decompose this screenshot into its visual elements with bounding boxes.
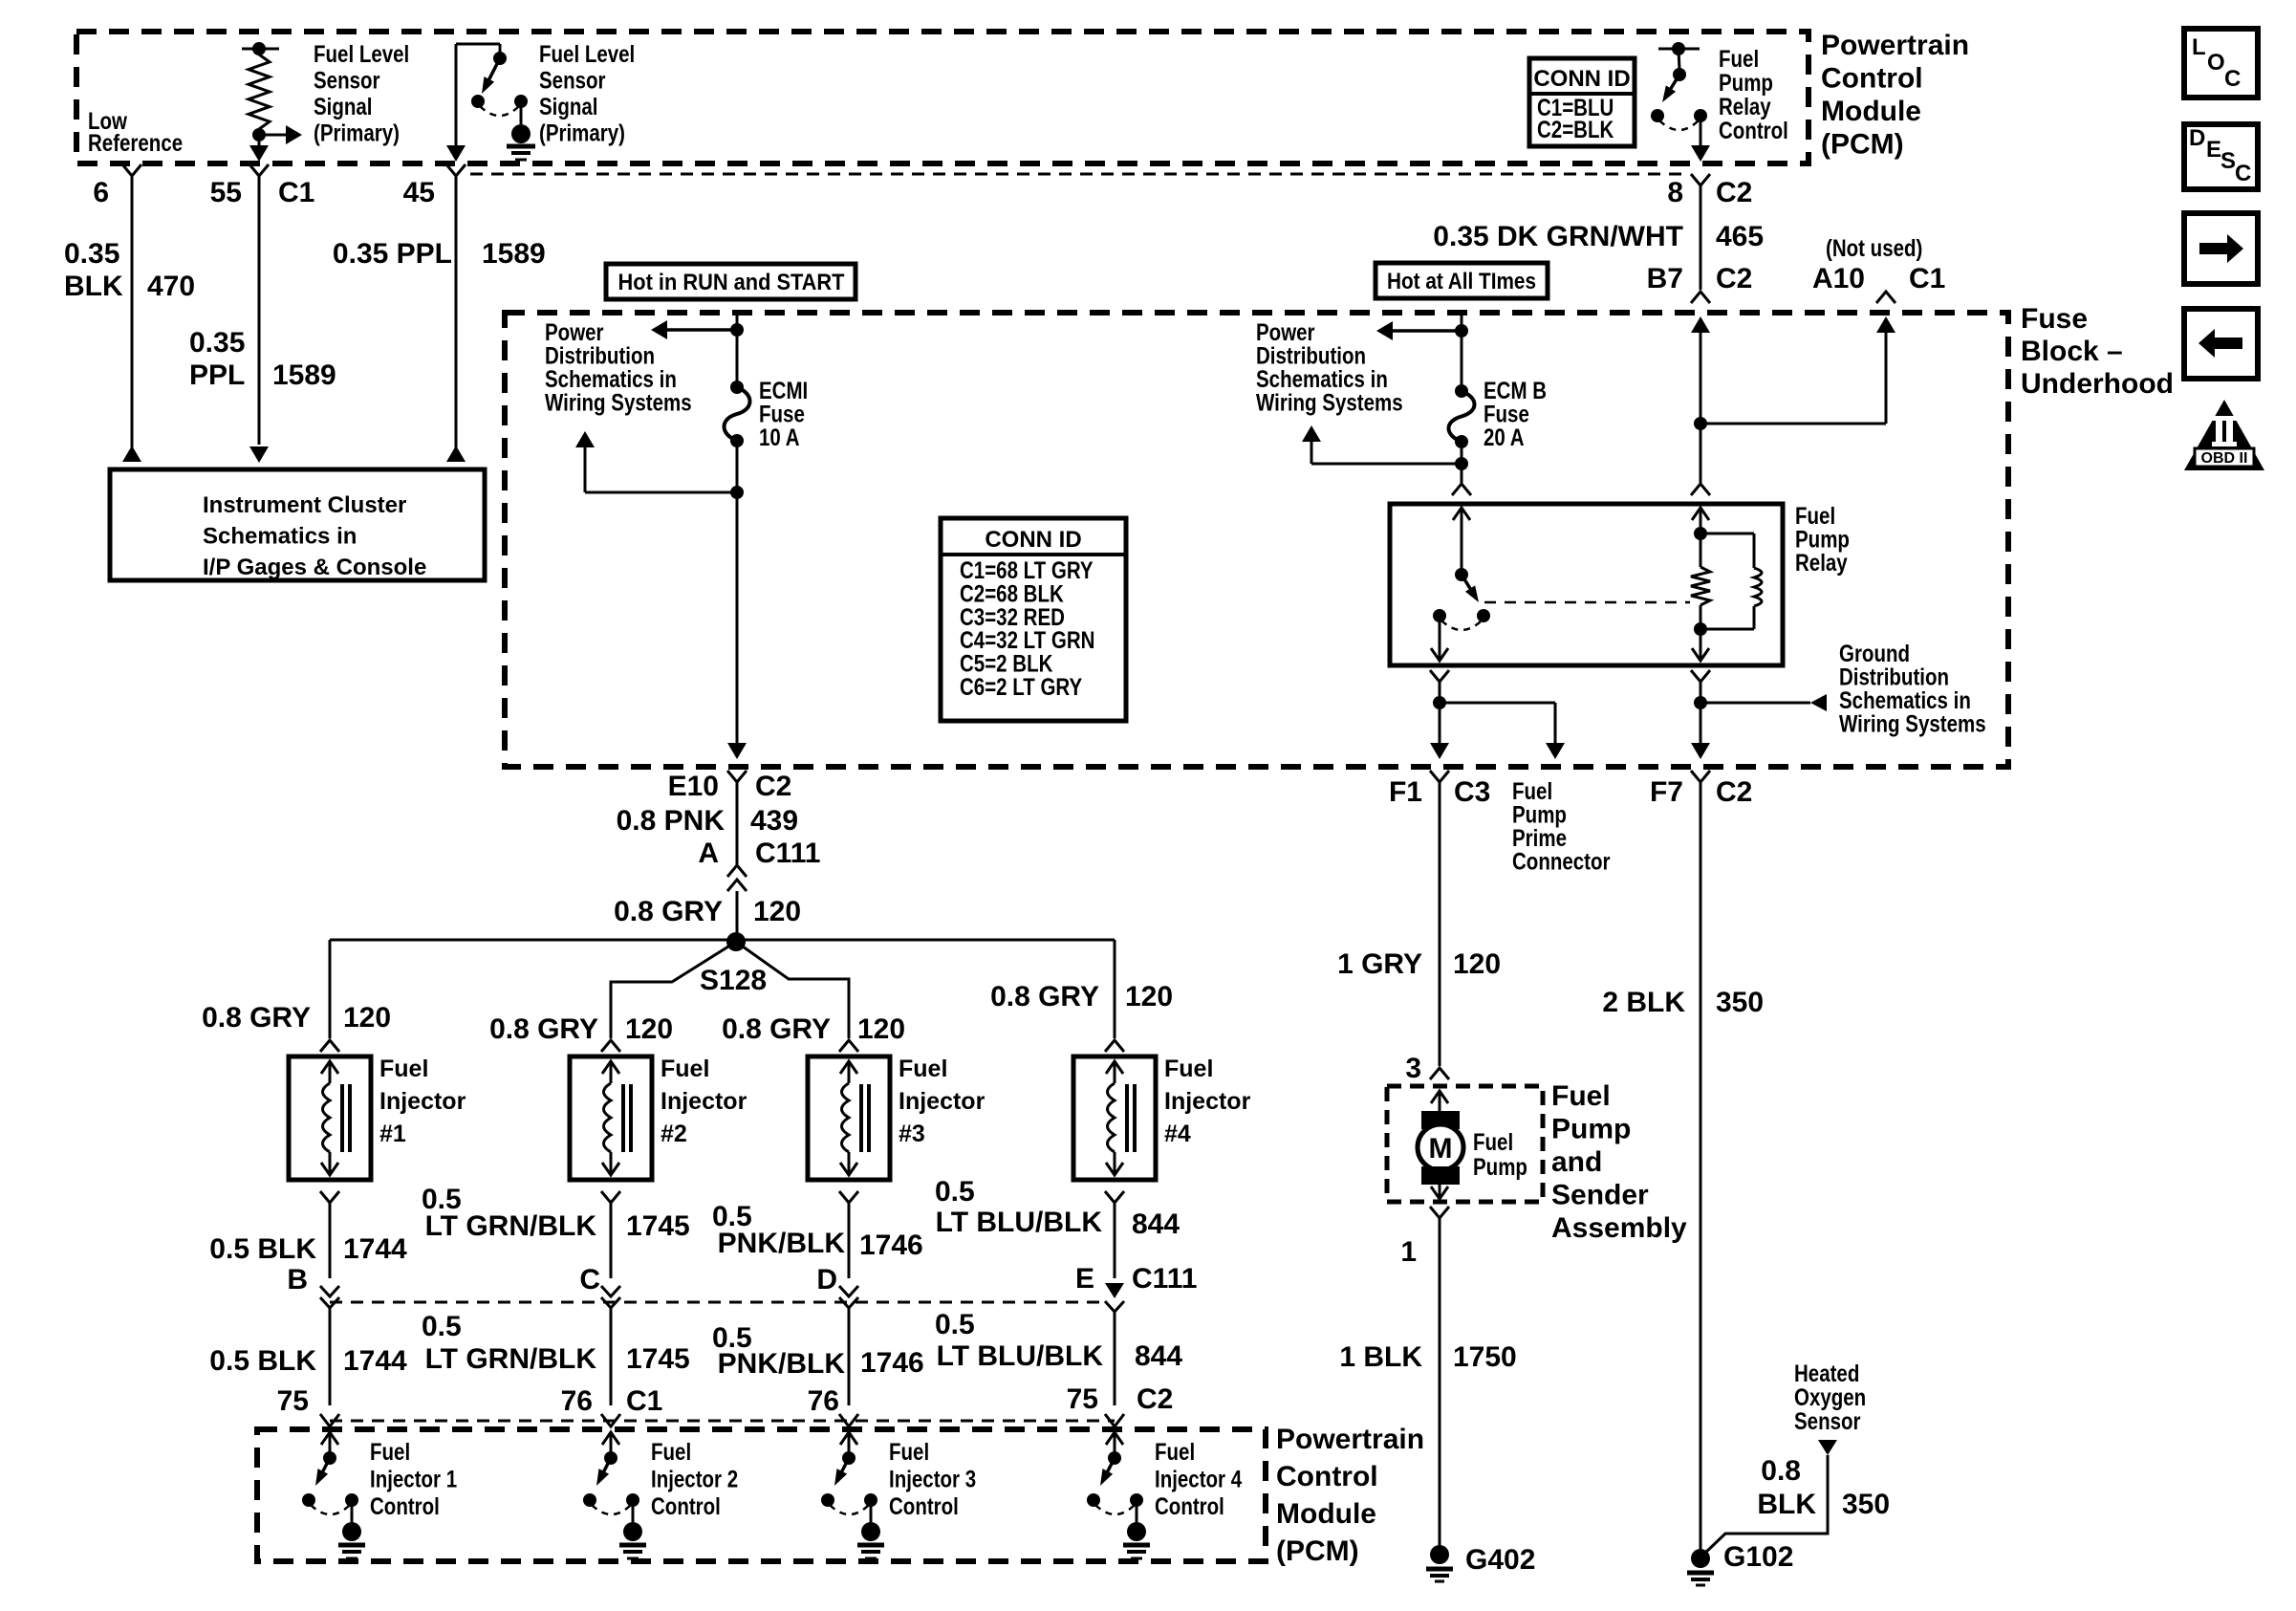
svg-text:#3: #3	[899, 1121, 925, 1147]
svg-text:Fuel: Fuel	[1473, 1128, 1513, 1155]
svg-text:Control: Control	[1276, 1461, 1378, 1492]
connector C111 double chevron col 3	[839, 1286, 858, 1296]
svg-text:0.8 GRY: 0.8 GRY	[614, 896, 723, 927]
svg-text:I/P Gages & Console: I/P Gages & Console	[203, 555, 426, 580]
icon arrow left box	[2184, 309, 2258, 379]
svg-text:#4: #4	[1164, 1121, 1191, 1147]
wire B7 465 down to relay coil	[1691, 316, 1710, 333]
PCM connector chevron col 4	[1105, 1414, 1124, 1426]
svg-text:Control: Control	[651, 1492, 721, 1519]
svg-text:CONN ID: CONN ID	[985, 527, 1081, 553]
svg-text:120: 120	[625, 1013, 673, 1045]
svg-text:0.5 BLK: 0.5 BLK	[209, 1233, 316, 1265]
fuel injector #2 box	[601, 1040, 620, 1052]
fuel injector 4 control driver switch	[1114, 1432, 1116, 1453]
svg-text:Control: Control	[1719, 117, 1788, 143]
svg-text:6: 6	[93, 177, 109, 208]
svg-text:LT GRN/BLK: LT GRN/BLK	[425, 1210, 597, 1242]
svg-text:0.5: 0.5	[935, 1176, 975, 1208]
PCM connector C1 thin dashed line	[470, 173, 1687, 176]
svg-text:BLK: BLK	[1757, 1489, 1816, 1520]
ground at sender	[520, 107, 523, 124]
label ECMI Fuse 10 A	[759, 377, 808, 403]
wire ECM B feed into fuse block	[1461, 313, 1463, 391]
svg-text:1744: 1744	[343, 1233, 407, 1265]
relay coil output wire	[1700, 629, 1702, 661]
fuel pump prime connector branch	[1440, 702, 1555, 705]
svg-text:0.8 PNK: 0.8 PNK	[617, 805, 726, 837]
svg-text:D: D	[816, 1264, 837, 1295]
svg-text:0.5: 0.5	[422, 1311, 462, 1342]
svg-text:LT BLU/BLK: LT BLU/BLK	[936, 1207, 1103, 1238]
fuel pump motor	[1439, 1091, 1441, 1112]
relay dashed actuation line	[1484, 601, 1690, 604]
relay coil resistor	[1700, 533, 1702, 567]
svg-text:C2: C2	[1716, 177, 1752, 208]
svg-text:1745: 1745	[626, 1343, 690, 1375]
svg-text:Reference: Reference	[88, 129, 183, 156]
connector C111 double chevron col 2	[601, 1286, 620, 1296]
label Heated Oxygen Sensor	[1794, 1360, 1859, 1386]
fuel pump relay control switch (PCM)	[1658, 48, 1700, 51]
svg-text:Relay: Relay	[1795, 549, 1848, 576]
wire 120 GRY to fuel pump	[1430, 771, 1449, 782]
wire 350 BLK to ground G102	[1700, 782, 1702, 1551]
svg-text:C: C	[2235, 161, 2251, 186]
svg-text:(PCM): (PCM)	[1821, 129, 1904, 161]
svg-text:Fuel: Fuel	[1551, 1080, 1611, 1112]
svg-text:76: 76	[561, 1385, 593, 1417]
fuel injector 2 control driver switch	[610, 1432, 613, 1453]
svg-text:Powertrain: Powertrain	[1821, 30, 1969, 61]
wire below ECM B fuse	[1461, 442, 1463, 483]
svg-text:0.8: 0.8	[1761, 1455, 1801, 1487]
fuel injector 3 control ground	[870, 1506, 873, 1524]
icon arrow right box	[2184, 213, 2258, 284]
arrows at fuse block bottom	[727, 743, 747, 759]
svg-text:Module: Module	[1276, 1498, 1376, 1530]
arrow to Fuel Level Sensor Signal label	[259, 134, 289, 137]
svg-text:#1: #1	[379, 1121, 406, 1147]
svg-text:C1: C1	[626, 1385, 662, 1417]
svg-text:Control: Control	[370, 1492, 440, 1519]
icon OBD II triangle	[2184, 400, 2264, 470]
svg-text:45: 45	[403, 177, 435, 208]
icon DESC box	[2184, 124, 2258, 189]
svg-text:1746: 1746	[860, 1347, 924, 1379]
svg-text:#2: #2	[661, 1121, 687, 1147]
svg-text:10 A: 10 A	[759, 424, 800, 450]
icon LOC box	[2184, 29, 2258, 98]
arrow to power distribution (right)	[1392, 329, 1462, 333]
injector #3 output wire	[839, 1191, 858, 1203]
svg-text:Underhood: Underhood	[2021, 368, 2174, 400]
resistor fuel level sensor (primary)	[242, 48, 279, 51]
label Power Distribution Schematics in Wiring Systems (right)	[1256, 318, 1315, 345]
svg-text:8: 8	[1667, 177, 1683, 208]
svg-text:Signal: Signal	[539, 93, 598, 120]
svg-text:0.35: 0.35	[64, 238, 119, 270]
pin labels E10 C2	[727, 771, 747, 782]
svg-text:LT GRN/BLK: LT GRN/BLK	[425, 1343, 597, 1375]
fuel pump relay box	[1390, 504, 1783, 665]
label Fuel Injector 1 Control	[370, 1438, 410, 1465]
svg-text:0.5: 0.5	[935, 1309, 975, 1340]
svg-text:Control: Control	[1155, 1492, 1224, 1519]
svg-text:D: D	[2189, 125, 2205, 151]
svg-text:55: 55	[210, 177, 242, 208]
svg-text:0.8 GRY: 0.8 GRY	[990, 981, 1099, 1012]
svg-text:C6=2 LT GRY: C6=2 LT GRY	[960, 673, 1082, 700]
svg-text:0.8 GRY: 0.8 GRY	[489, 1013, 598, 1045]
svg-text:465: 465	[1716, 221, 1764, 252]
svg-text:Sender: Sender	[1551, 1180, 1649, 1211]
splice S128 bus	[330, 939, 1115, 942]
svg-text:Fuel: Fuel	[651, 1438, 691, 1465]
svg-text:Fuel Level: Fuel Level	[314, 40, 409, 67]
label Fuel Level Sensor Signal (Primary) left	[314, 40, 409, 67]
PCM module dashed box (top)	[76, 32, 1809, 163]
svg-text:C2: C2	[1716, 263, 1752, 294]
svg-text:1589: 1589	[272, 359, 336, 391]
fuel injector #3 coil symbol	[848, 1061, 851, 1083]
svg-text:BLK: BLK	[64, 271, 123, 302]
svg-text:Fuel: Fuel	[1155, 1438, 1195, 1465]
label box Hot at All Times	[1375, 263, 1548, 298]
svg-text:C2=BLK: C2=BLK	[1537, 116, 1614, 142]
label (Not used) A10 C1	[1826, 234, 1922, 261]
svg-text:1 BLK: 1 BLK	[1339, 1341, 1422, 1373]
svg-text:C2: C2	[1716, 776, 1752, 808]
svg-text:1589: 1589	[482, 238, 546, 270]
wire 55 fuel level signal	[249, 164, 269, 176]
wire to injector 4	[1114, 940, 1116, 1038]
svg-text:120: 120	[753, 896, 801, 927]
PCM module dashed box (bottom)	[257, 1429, 1266, 1561]
svg-text:CONN ID: CONN ID	[1533, 66, 1630, 92]
svg-text:(Primary): (Primary)	[314, 120, 400, 146]
svg-text:Fuel: Fuel	[370, 1438, 410, 1465]
svg-text:C1: C1	[278, 177, 314, 208]
label box Hot in RUN and START	[606, 264, 856, 299]
svg-text:C2: C2	[755, 771, 791, 802]
svg-text:Injector 1: Injector 1	[370, 1466, 457, 1492]
injector #2 output wire	[601, 1191, 620, 1203]
svg-text:Fuel Level: Fuel Level	[539, 40, 635, 67]
label Power Distribution Schematics in Wiring Systems (left)	[545, 318, 604, 345]
svg-text:Instrument Cluster: Instrument Cluster	[203, 492, 406, 518]
svg-text:(Not used): (Not used)	[1826, 234, 1922, 261]
injector #1 output wire	[320, 1191, 339, 1203]
svg-text:Fuse: Fuse	[2021, 303, 2088, 335]
svg-text:B: B	[287, 1264, 308, 1295]
label Fuel Injector 2 Control	[651, 1438, 691, 1465]
relay switch output wire	[1439, 621, 1441, 661]
svg-text:Injector: Injector	[379, 1088, 466, 1115]
svg-text:PNK/BLK: PNK/BLK	[718, 1348, 846, 1380]
svg-text:3: 3	[1405, 1053, 1421, 1084]
svg-text:C111: C111	[1132, 1263, 1197, 1295]
svg-text:Signal: Signal	[314, 93, 373, 120]
fuel injector 1 control driver switch	[329, 1432, 332, 1453]
svg-text:Wiring Systems: Wiring Systems	[545, 389, 692, 416]
wire 45 fuel level signal secondary	[446, 164, 466, 176]
svg-text:OBD II: OBD II	[2201, 450, 2248, 467]
svg-text:PNK/BLK: PNK/BLK	[718, 1228, 846, 1259]
injector #4 output wire	[1105, 1191, 1124, 1203]
label Low Reference	[88, 107, 127, 134]
svg-text:844: 844	[1132, 1208, 1180, 1240]
PCM connector chevron col 3	[839, 1414, 858, 1426]
svg-text:1746: 1746	[859, 1230, 923, 1261]
svg-text:G402: G402	[1465, 1544, 1535, 1576]
svg-text:Fuel: Fuel	[889, 1438, 929, 1465]
svg-text:C3: C3	[1454, 776, 1490, 808]
svg-text:S: S	[2220, 148, 2236, 174]
connector C111 double chevron col 1	[320, 1286, 339, 1296]
svg-text:Connector: Connector	[1512, 848, 1611, 875]
heated oxygen sensor wire 350	[1818, 1440, 1837, 1455]
svg-text:120: 120	[857, 1013, 905, 1045]
svg-text:C111: C111	[755, 838, 820, 869]
svg-text:0.5 BLK: 0.5 BLK	[209, 1345, 316, 1377]
PCM connector thin dashed row (bottom)	[330, 1420, 1115, 1423]
svg-text:B7: B7	[1647, 263, 1683, 294]
svg-text:F1: F1	[1389, 776, 1422, 808]
svg-text:Hot in RUN and START: Hot in RUN and START	[618, 270, 845, 295]
svg-text:A10: A10	[1812, 263, 1865, 294]
instrument cluster box	[110, 469, 485, 580]
svg-text:1744: 1744	[343, 1345, 407, 1377]
ground G402	[1430, 1545, 1449, 1564]
svg-text:O: O	[2207, 50, 2225, 76]
svg-text:Module: Module	[1821, 96, 1921, 127]
connector chevron into relay	[1452, 484, 1471, 495]
svg-text:C: C	[2224, 66, 2241, 92]
fuel injector 3 control driver switch	[848, 1432, 851, 1453]
svg-text:Block –: Block –	[2021, 336, 2123, 367]
label Fuel Injector 3 Control	[889, 1438, 929, 1465]
connector C111 pin E arrow	[1105, 1283, 1124, 1298]
svg-text:Pump: Pump	[1551, 1114, 1631, 1145]
fuel injector #2 coil symbol	[610, 1061, 613, 1083]
svg-text:Schematics in: Schematics in	[203, 524, 357, 550]
svg-text:75: 75	[1067, 1383, 1098, 1415]
svg-text:Injector: Injector	[1164, 1088, 1251, 1115]
svg-text:Wiring Systems: Wiring Systems	[1839, 710, 1986, 737]
fuse ECM B 20A	[1455, 384, 1468, 398]
ground G102	[1691, 1549, 1710, 1568]
svg-text:0.8 GRY: 0.8 GRY	[722, 1013, 831, 1045]
svg-text:Injector 4: Injector 4	[1155, 1466, 1242, 1492]
fuel pump and sender assembly dashed box	[1387, 1086, 1543, 1202]
wire below ECMI fuse	[736, 441, 739, 743]
svg-text:Powertrain: Powertrain	[1276, 1424, 1424, 1455]
label Fuel Pump Relay Control	[1719, 45, 1759, 72]
svg-text:Fuel: Fuel	[899, 1056, 947, 1082]
wire A10 chevron	[1876, 292, 1895, 303]
svg-text:0.8 GRY: 0.8 GRY	[202, 1002, 311, 1034]
svg-text:0.35 DK GRN/WHT: 0.35 DK GRN/WHT	[1433, 221, 1683, 252]
svg-text:20 A: 20 A	[1484, 424, 1525, 450]
svg-text:PPL: PPL	[189, 359, 245, 391]
CONN ID box (fuse block)	[941, 518, 1126, 721]
svg-text:M: M	[1429, 1133, 1453, 1165]
svg-text:439: 439	[750, 805, 798, 837]
svg-text:75: 75	[277, 1385, 309, 1417]
S128 branch to injector 3	[736, 942, 849, 1038]
svg-text:(Primary): (Primary)	[539, 120, 625, 146]
svg-text:Control: Control	[889, 1492, 959, 1519]
svg-text:E: E	[1075, 1263, 1094, 1295]
wire A10 branch (not used)	[1700, 423, 1886, 425]
wire to injector 1	[329, 940, 332, 1038]
inline connector C111 pin A (double chevron)	[727, 865, 747, 877]
svg-text:1: 1	[1400, 1236, 1417, 1268]
svg-text:350: 350	[1716, 987, 1764, 1018]
wire sensor signal to connector	[258, 142, 261, 148]
svg-text:C: C	[579, 1264, 600, 1295]
svg-text:Assembly: Assembly	[1551, 1212, 1687, 1244]
fuel injector 2 control ground	[632, 1506, 635, 1524]
svg-text:and: and	[1551, 1146, 1602, 1178]
svg-text:2 BLK: 2 BLK	[1602, 987, 1685, 1018]
fuel level sender switch (wiper)	[456, 43, 500, 46]
fuel injector #1 box	[320, 1040, 339, 1052]
svg-text:E: E	[2206, 137, 2221, 163]
svg-text:1750: 1750	[1453, 1341, 1517, 1373]
svg-text:350: 350	[1842, 1489, 1890, 1520]
label Ground Distribution Schematics in Wiring Systems	[1839, 640, 1910, 666]
svg-text:0.35 PPL: 0.35 PPL	[333, 238, 452, 270]
wire ECMI feed into fuse block	[736, 313, 739, 387]
fuel injector 1 control ground	[351, 1506, 354, 1524]
svg-text:470: 470	[147, 271, 195, 302]
svg-text:120: 120	[1125, 981, 1173, 1012]
arrow to power distribution (left)	[666, 328, 737, 332]
svg-text:1745: 1745	[626, 1210, 690, 1242]
fuel injector 4 control ground	[1136, 1506, 1138, 1524]
svg-text:A: A	[698, 838, 719, 869]
svg-text:76: 76	[808, 1385, 839, 1417]
PCM connector chevron col 1	[320, 1414, 339, 1426]
fuel injector #3 box	[839, 1040, 858, 1052]
ground distribution reference arrow	[1700, 702, 1810, 705]
svg-text:Injector: Injector	[661, 1088, 747, 1115]
fuel injector #4 box	[1105, 1040, 1124, 1052]
branch arrow up (power distribution ref)	[585, 491, 737, 494]
svg-text:844: 844	[1135, 1340, 1182, 1372]
fuse ECMI 10A	[730, 381, 744, 394]
svg-text:Control: Control	[1821, 63, 1923, 95]
svg-text:Fuel: Fuel	[379, 1056, 428, 1082]
svg-text:C2: C2	[1137, 1383, 1173, 1415]
label Fuel Injector 4 Control	[1155, 1438, 1195, 1465]
fuse block underhood dashed box	[505, 313, 2008, 767]
svg-text:Fuel: Fuel	[1164, 1056, 1213, 1082]
svg-text:Injector: Injector	[899, 1088, 986, 1115]
svg-text:1 GRY: 1 GRY	[1337, 948, 1422, 980]
label Fuel Level Sensor Signal (Primary) right	[539, 40, 635, 67]
inline connector C111 row (dashed)	[330, 1301, 1107, 1304]
svg-text:120: 120	[343, 1002, 391, 1034]
svg-text:S128: S128	[700, 965, 767, 996]
svg-text:L: L	[2192, 34, 2206, 60]
CONN ID box (PCM)	[1529, 58, 1635, 146]
svg-text:Sensor: Sensor	[314, 67, 380, 94]
svg-text:0.35: 0.35	[189, 327, 245, 359]
wire 45 inside PCM	[455, 44, 458, 146]
svg-text:Fuel: Fuel	[661, 1056, 709, 1082]
svg-text:120: 120	[1453, 948, 1501, 980]
svg-text:Injector 3: Injector 3	[889, 1466, 976, 1492]
relay switch	[1461, 508, 1463, 570]
fuel injector #1 coil symbol	[329, 1061, 332, 1083]
svg-text:(PCM): (PCM)	[1276, 1535, 1359, 1567]
svg-text:Injector 2: Injector 2	[651, 1466, 738, 1492]
wire 465 fuel pump relay control	[1691, 174, 1710, 185]
svg-text:G102: G102	[1723, 1541, 1793, 1573]
label Fuel Pump (small)	[1473, 1128, 1513, 1155]
relay coil	[1700, 508, 1702, 533]
svg-text:E10: E10	[668, 771, 719, 802]
svg-text:Sensor: Sensor	[1794, 1407, 1861, 1434]
svg-text:Pump: Pump	[1473, 1153, 1527, 1180]
svg-text:Sensor: Sensor	[539, 67, 606, 94]
label ECM B Fuse 20 A	[1484, 377, 1547, 403]
fuel injector #4 coil symbol	[1114, 1061, 1116, 1083]
branch arrow up (power distribution ref right)	[1311, 463, 1462, 466]
S128 branch to injector 2	[611, 942, 736, 1038]
svg-text:Hot at All TImes: Hot at All TImes	[1387, 269, 1536, 294]
wire 439 pink	[736, 782, 739, 864]
svg-text:C1: C1	[1909, 263, 1945, 294]
wire 6 low reference	[122, 164, 141, 176]
PCM connector chevron col 2	[601, 1414, 620, 1426]
label Fuel Pump Relay	[1795, 502, 1835, 529]
label Fuel Pump Prime Connector	[1512, 777, 1552, 804]
svg-text:F7: F7	[1650, 776, 1683, 808]
wire 1750 BLK to ground G402	[1430, 1207, 1449, 1218]
svg-text:Wiring Systems: Wiring Systems	[1256, 389, 1403, 416]
svg-text:LT BLU/BLK: LT BLU/BLK	[937, 1340, 1104, 1372]
